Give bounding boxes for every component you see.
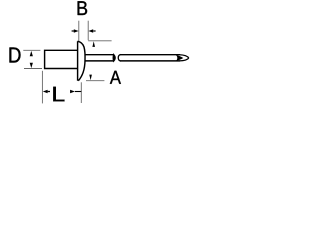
L dim right extension line — [80, 82, 82, 103]
D dim bottom extension line — [24, 68, 42, 70]
B dim left arrow (points right) — [72, 30, 75, 32]
A dim top extension line — [88, 40, 111, 42]
mandrel stem top edge — [85, 54, 114, 56]
mandrel stem broken end cap — [113, 54, 115, 61]
B dim right extension line — [87, 21, 89, 41]
L dim left extension line — [41, 71, 43, 104]
mandrel rod top edge — [120, 54, 180, 56]
rivet body outline — [45, 50, 78, 68]
L dim left arrow (points left) — [43, 90, 48, 94]
L dim right arrow (points right) — [70, 90, 75, 94]
label D — [9, 47, 20, 62]
D dim up arrow — [30, 51, 33, 56]
D dim down arrow — [30, 63, 33, 68]
mandrel tip black shading — [176, 55, 184, 61]
D dim top extension line — [23, 49, 40, 51]
A dim up arrow — [92, 41, 95, 47]
rivet head (flange) face and dome — [78, 41, 85, 81]
B dim left extension line — [78, 21, 80, 41]
label L — [53, 87, 64, 102]
mandrel rod bottom edge — [120, 60, 180, 62]
label B — [78, 1, 88, 15]
mandrel rod left rounded cap — [118, 55, 120, 62]
label A — [110, 71, 121, 84]
mandrel stem bottom edge — [85, 60, 114, 62]
A dim bottom extension line — [86, 80, 104, 82]
A dim down arrow — [89, 75, 92, 81]
mandrel tip outline — [180, 55, 189, 61]
B dim right arrow (points left) — [93, 30, 95, 32]
